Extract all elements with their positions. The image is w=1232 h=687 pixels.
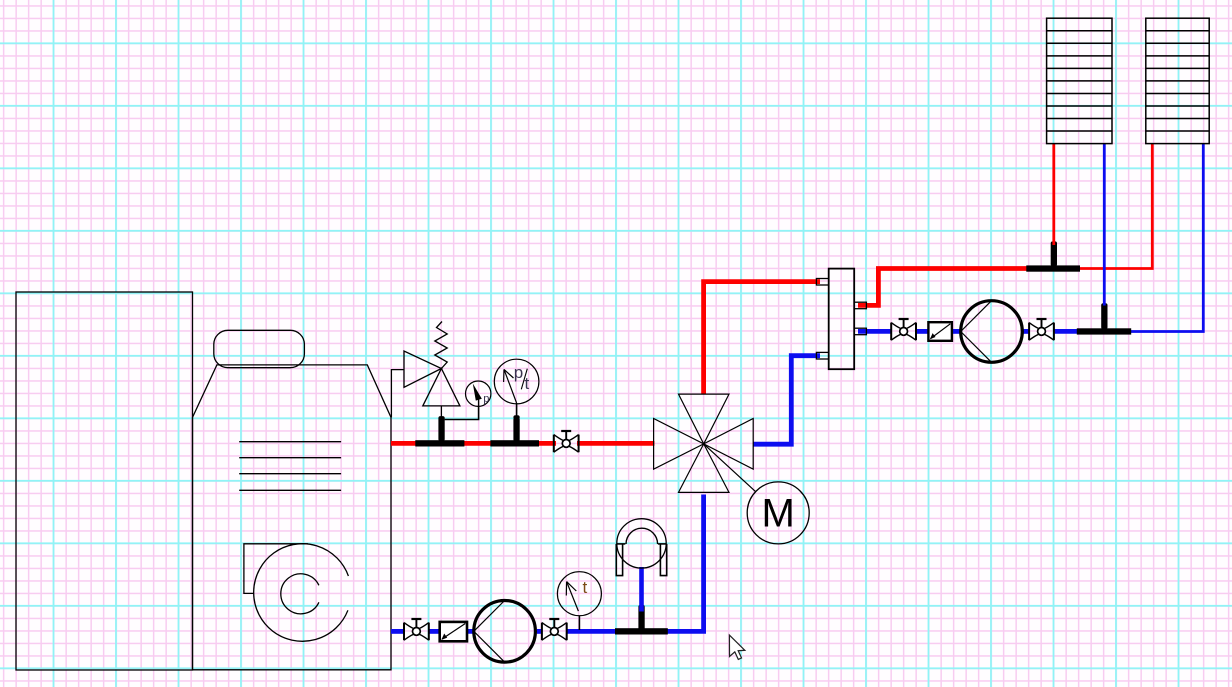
safety valve connection wire — [391, 370, 404, 418]
safety valve triangle up — [423, 369, 460, 406]
blue pipe check to pump — [951, 329, 960, 334]
boiler top capsule — [214, 330, 305, 367]
svg-text:p: p — [483, 393, 489, 405]
svg-text:p: p — [514, 363, 523, 382]
thin blue branch to radiator 2 — [1130, 144, 1203, 332]
blue return pipe segment tee to valve — [567, 629, 617, 634]
pressure gauge p — [466, 381, 491, 406]
hx stub left bottom — [816, 352, 828, 359]
thin red branch to radiator 2 — [1079, 144, 1152, 269]
motor M circle — [747, 482, 809, 544]
check valve right — [928, 322, 952, 341]
blue pipe mixing valve to heat exchanger — [753, 356, 820, 445]
mouse cursor — [729, 635, 744, 659]
hx stub right top — [854, 302, 866, 309]
burner fan scroll — [244, 544, 349, 642]
svg-text:t: t — [525, 374, 530, 393]
blue pipe valve3 to check — [916, 329, 929, 334]
thin blue riser radiator 1 — [1103, 144, 1106, 306]
blue stub to expansion vessel — [639, 567, 644, 612]
tee T3 on return — [615, 605, 668, 635]
safety valve spring — [435, 322, 447, 369]
blue return pipe segment valve to pump — [537, 629, 542, 634]
boiler fin line 4 — [239, 489, 341, 491]
red supply pipe from boiler — [391, 441, 556, 446]
svg-text:M: M — [762, 492, 795, 536]
red pipe heat exchanger outlet to radiators — [858, 269, 1031, 306]
blue return drop from mixing valve — [667, 495, 704, 632]
tee T4 supply to radiator 1 — [1026, 241, 1080, 271]
boiler fin line 3 — [239, 473, 341, 475]
check valve bottom — [440, 622, 467, 641]
radiator 1 — [1047, 18, 1112, 143]
storage tank rectangle — [16, 292, 193, 670]
expansion vessel — [616, 519, 666, 576]
valve V3 — [891, 319, 916, 340]
gauge p/t — [494, 359, 539, 404]
gauge p/t wire and stem — [516, 403, 518, 417]
blue return pipe segment check valve to boiler — [429, 629, 441, 634]
hx stub left top — [816, 279, 828, 286]
blue pipe pump to valve4 — [1023, 329, 1030, 334]
actuator link line — [704, 444, 756, 492]
tee T2 on supply under gauge — [490, 418, 539, 447]
valve on supply line — [554, 431, 579, 452]
svg-text:t: t — [583, 578, 588, 597]
pressure gauge p wire — [445, 406, 479, 419]
four-way mixing valve — [654, 394, 754, 492]
valve V0 — [404, 619, 429, 640]
boiler fin line 1 — [239, 441, 341, 443]
pump bottom — [474, 601, 536, 663]
valve V4 — [1029, 319, 1054, 340]
safety valve drain wire — [440, 406, 442, 418]
safety valve triangle right — [404, 351, 441, 387]
heat exchanger body — [829, 269, 855, 370]
thermometer wire — [578, 616, 580, 630]
red supply pipe valve to mixing valve — [577, 441, 655, 446]
red riser to heat exchanger — [704, 282, 820, 395]
radiator 2 — [1146, 18, 1209, 143]
boiler fin line 2 — [239, 457, 341, 459]
thin red riser radiator 1 — [1052, 144, 1055, 245]
blue secondary pipe hx to pump group — [858, 329, 892, 334]
valve V2 — [542, 619, 567, 640]
hx stub right bottom — [854, 328, 866, 335]
tee T1 on supply with safety group — [415, 416, 464, 446]
pump right — [961, 301, 1023, 363]
thermometer gauge t — [557, 572, 601, 616]
tee T5 return from radiator 1 — [1077, 303, 1131, 334]
blue return pipe segment pump to check valve — [440, 629, 473, 634]
boiler body — [193, 365, 392, 670]
blue pipe valve4 to tee — [1054, 329, 1078, 334]
blue gap filler valve left — [391, 629, 405, 634]
